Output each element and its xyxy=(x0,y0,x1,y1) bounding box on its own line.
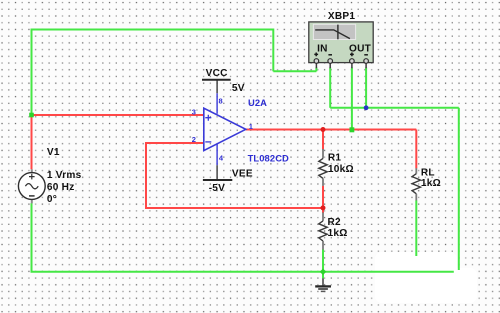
wire: red to op-amp non-inverting input xyxy=(32,114,204,116)
op-amp minus mark xyxy=(205,141,211,143)
svg-text:1kΩ: 1kΩ xyxy=(328,228,348,239)
svg-text:5V: 5V xyxy=(232,83,245,94)
wire: green from IN- down xyxy=(329,68,331,108)
wire: green below R2 to ground junction xyxy=(322,249,324,278)
op-amp pin 4 lead (blue part) xyxy=(216,144,218,165)
junction dot green at OUT+ on output net xyxy=(350,127,355,132)
wire: green corner vertical down to XBP1 row xyxy=(272,29,274,72)
svg-text:10kΩ: 10kΩ xyxy=(328,164,354,175)
svg-text:-5V: -5V xyxy=(209,183,225,194)
svg-text:1: 1 xyxy=(249,122,253,131)
svg-text:1 Vrms: 1 Vrms xyxy=(47,170,82,181)
wire: green from OUT- down xyxy=(365,68,367,108)
wire: red V1 plus up to junction xyxy=(31,115,33,169)
XBP1 polarity marks xyxy=(314,53,368,57)
wire: red output down to R1 xyxy=(322,130,324,150)
wire: red op-amp output horizontal xyxy=(246,129,417,131)
junction dot green at V1 top xyxy=(29,113,34,118)
wire: green V1 minus down xyxy=(31,203,33,272)
VEE symbol lead + bar xyxy=(216,165,218,180)
junction dot red at R1 top xyxy=(321,127,326,132)
XBP1 bode plotter body xyxy=(309,22,373,63)
XBP1 terminals xyxy=(314,59,368,64)
svg-text:2: 2 xyxy=(192,135,196,144)
svg-text:TL082CD: TL082CD xyxy=(248,153,289,164)
VCC symbol bar + lead xyxy=(216,80,218,93)
svg-text:VCC: VCC xyxy=(206,68,229,79)
svg-text:VEE: VEE xyxy=(232,168,253,179)
resistor R2 xyxy=(319,212,327,249)
junction dot red at feedback tap xyxy=(321,205,326,210)
svg-text:1kΩ: 1kΩ xyxy=(421,178,441,189)
resistor R1 xyxy=(319,149,327,186)
svg-text:U2A: U2A xyxy=(248,97,267,108)
XBP1 pin stubs xyxy=(316,63,366,69)
wire: green ground-net horizontal xyxy=(330,107,459,109)
wire: red between R1 and R2 xyxy=(322,186,324,213)
svg-text:RL: RL xyxy=(421,168,435,179)
wire: red down to RL xyxy=(415,130,417,169)
svg-text:60 Hz: 60 Hz xyxy=(47,182,75,193)
white watermark blob bottom-right xyxy=(375,252,477,303)
svg-text:0°: 0° xyxy=(47,194,57,205)
wire: green from OUT+ down to output net xyxy=(351,68,353,130)
svg-text:3: 3 xyxy=(192,108,196,117)
ground symbol xyxy=(315,278,331,291)
svg-text:IN: IN xyxy=(317,43,328,54)
op-amp plus mark xyxy=(205,115,211,121)
svg-text:8: 8 xyxy=(219,96,223,105)
wire: green right vertical (truncated by blob) xyxy=(458,108,460,270)
wire: green below RL (truncated by blob) xyxy=(415,200,417,256)
svg-text:R1: R1 xyxy=(328,153,342,164)
junction dot blue at OUT- / ground net xyxy=(364,105,369,110)
junction dot green at ground xyxy=(320,269,327,276)
wire: green IN+ stub rise xyxy=(315,68,317,72)
svg-text:XBP1: XBP1 xyxy=(328,11,356,22)
V1 source symbol xyxy=(18,169,45,203)
wire: green bottom horizontal rail (truncated by blob) xyxy=(31,271,454,273)
svg-text:R2: R2 xyxy=(328,217,342,228)
svg-text:V1: V1 xyxy=(47,147,60,158)
op-amp pin 8 lead (blue part) xyxy=(216,93,218,114)
wire: red feedback loop to inverting input xyxy=(146,143,323,208)
resistor RL xyxy=(412,168,420,200)
wire: green horizontal into XBP1 IN+ xyxy=(273,70,316,72)
op-amp U2A triangle xyxy=(204,108,246,150)
wire: green top-left vertical (V1 plus to top rail) xyxy=(31,30,33,116)
wire: green top horizontal rail xyxy=(31,29,274,31)
